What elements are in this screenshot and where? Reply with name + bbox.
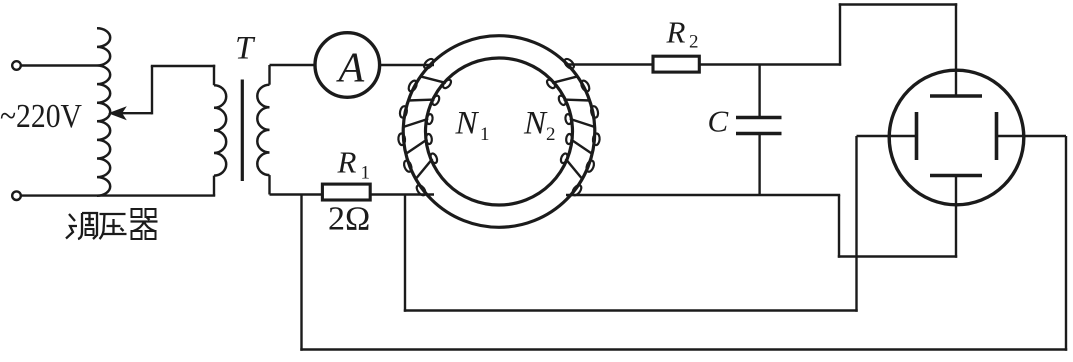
toroid winding N1 outer loop 4 xyxy=(398,133,406,145)
wire wiper tap to transformer primary top xyxy=(151,66,153,114)
tube envelope xyxy=(889,70,1024,205)
label 调压器 (hand-drawn CJK strokes) xyxy=(66,209,158,239)
toroid winding N2 outer loop 3 xyxy=(590,106,599,119)
transformer T primary winding xyxy=(214,66,215,85)
tube bottom electrode bar xyxy=(930,174,982,178)
wire toroid N2 top to R2 xyxy=(565,63,653,65)
transformer T core xyxy=(241,80,244,182)
toroid winding N1 turn 2 xyxy=(408,98,435,101)
toroid winding N2 turn 5 xyxy=(566,159,583,180)
autotransformer winding (8 turns) xyxy=(97,28,110,195)
tube top lead xyxy=(955,3,957,96)
svg-text:2Ω: 2Ω xyxy=(328,201,370,238)
toroid winding N1 outer loop 6 xyxy=(415,184,427,197)
svg-text:2: 2 xyxy=(546,124,556,145)
toroid winding N1 turn 5 xyxy=(415,159,432,180)
svg-text:N: N xyxy=(523,106,548,142)
toroid winding N1 outer loop 5 xyxy=(403,160,413,173)
tube bottom lead xyxy=(955,176,957,258)
tube left electrode bar xyxy=(915,112,919,160)
svg-text:1: 1 xyxy=(361,163,371,184)
right riser to tube right electrode xyxy=(1065,136,1067,351)
toroid winding N2 turn 4 xyxy=(571,139,593,154)
svg-text:C: C xyxy=(708,104,729,139)
input terminal top xyxy=(12,61,21,70)
capacitor C plates xyxy=(736,116,782,120)
wire R1 to toroid N1 bottom xyxy=(370,193,434,195)
riser to tube left electrode xyxy=(855,136,857,312)
wire down right of C xyxy=(838,195,840,258)
svg-text:1: 1 xyxy=(480,124,490,145)
tube left lead xyxy=(857,135,917,137)
toroid winding N1 outer loop 3 xyxy=(399,106,408,119)
tube top electrode bar xyxy=(930,94,982,98)
svg-text:T: T xyxy=(235,31,256,67)
svg-text:R: R xyxy=(666,15,686,50)
toroid winding N1 turn 4 xyxy=(405,139,427,154)
svg-text:R: R xyxy=(337,145,357,180)
node drop wire left (x=301.5) xyxy=(300,195,302,351)
toroid winding N1 turn 3 xyxy=(403,119,428,127)
svg-text:~220V: ~220V xyxy=(0,98,82,135)
toroid winding N2 outer loop 5 xyxy=(585,160,595,173)
wire secondary bottom to R1 xyxy=(270,193,323,195)
wire secondary top to ammeter xyxy=(270,64,316,66)
wire R2 to top-right corner xyxy=(699,63,841,65)
wire bottom terminal to transformer primary bottom xyxy=(21,194,215,196)
toroid core inner circle xyxy=(426,58,573,205)
toroid winding N2 turn 1 xyxy=(552,76,578,83)
wire toroid N2 bottom to tube bottom path xyxy=(566,194,840,196)
toroid winding N2 outer loop 6 xyxy=(571,184,583,197)
transformer T secondary winding xyxy=(268,65,270,85)
tube right electrode bar xyxy=(995,112,999,160)
toroid winding N2 turn 3 xyxy=(570,119,595,127)
capacitor C top lead xyxy=(758,65,760,118)
bottom-most return wire xyxy=(300,348,1067,350)
middle return wire xyxy=(404,309,858,311)
svg-text:N: N xyxy=(455,106,480,142)
autotransformer wiper arrow xyxy=(112,112,152,114)
toroid winding N2 turn 2 xyxy=(564,98,591,101)
input terminal bottom xyxy=(12,191,21,200)
toroid winding N2 outer loop 4 xyxy=(593,133,601,145)
toroid core outer circle xyxy=(403,36,595,228)
tube right lead xyxy=(997,135,1067,137)
toroid winding N1 outer loop 1 xyxy=(422,57,435,70)
wire ammeter to toroid N1 top xyxy=(380,64,434,66)
resistor R1 xyxy=(322,184,370,200)
svg-text:A: A xyxy=(336,46,365,92)
node drop wire right of R1 (x=405) xyxy=(404,195,406,312)
toroid winding N1 outer loop 2 xyxy=(407,79,418,92)
capacitor C bottom lead xyxy=(758,134,760,196)
wire top-left terminal to autotransformer xyxy=(21,64,97,66)
top rail to tube top lead xyxy=(839,3,957,5)
svg-text:2: 2 xyxy=(689,32,699,53)
resistor R2 xyxy=(653,56,699,72)
toroid winding N2 outer loop 1 xyxy=(563,57,576,70)
wire up to top rail xyxy=(839,3,841,65)
toroid winding N2 outer loop 2 xyxy=(580,79,591,92)
ammeter A xyxy=(315,33,380,98)
toroid winding N1 turn 1 xyxy=(420,76,446,83)
wire to tube bottom lead xyxy=(838,255,957,257)
